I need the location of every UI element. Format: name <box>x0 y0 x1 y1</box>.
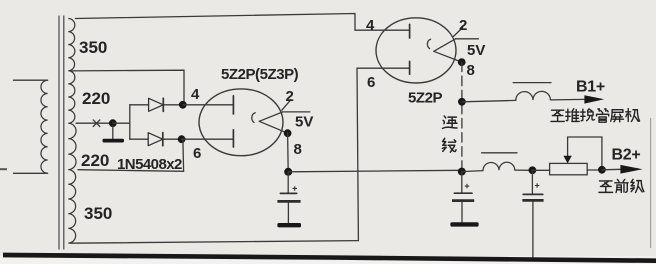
wire: L2 to node E <box>515 169 533 171</box>
wire: C3 to bottom edge <box>532 202 534 260</box>
wire: diode anode bus <box>129 105 131 139</box>
node F junction dot <box>598 166 606 174</box>
B1+ output arrow <box>584 95 604 103</box>
svg-text:B2+: B2+ <box>612 147 641 164</box>
choke L2 core line <box>482 152 517 154</box>
choke L2 wire in <box>462 171 483 172</box>
tube V2 filament <box>427 39 430 48</box>
bottom scan bar <box>3 253 656 263</box>
left edge wire stub <box>0 168 7 170</box>
transformer T1 secondary winding (350-220-0-220-350) <box>68 19 76 244</box>
svg-text:5Z2P: 5Z2P <box>408 90 442 107</box>
capacitor C2 (electrolytic at node D) <box>461 172 463 194</box>
wire: top rail from secondary top to V2 pin 4 <box>76 14 410 31</box>
tube V1 plate pin 6 lead <box>182 138 234 140</box>
wire: center tap lead <box>76 122 112 124</box>
svg-text:4: 4 <box>366 17 375 34</box>
potentiometer RP wiper arrow <box>567 137 569 156</box>
tube V1 filament <box>252 113 255 123</box>
node C junction dot <box>458 98 466 106</box>
tube V1 pin 8 junction dot <box>284 129 292 137</box>
node 6 junction dot <box>178 135 186 143</box>
node 4 junction dot <box>179 101 187 109</box>
svg-text:8: 8 <box>467 62 475 79</box>
svg-text:220: 220 <box>81 151 109 170</box>
svg-text:6: 6 <box>193 145 201 162</box>
svg-text:350: 350 <box>79 38 107 57</box>
tube V2 plate pin 6 bar <box>409 61 411 74</box>
wire: wiper tied to output <box>568 137 602 167</box>
diode D1 (1N5408) <box>130 104 149 106</box>
wire: V2 pin 6 down to bottom rail <box>357 68 409 240</box>
right edge scan line <box>650 118 652 248</box>
wire: node F to B2+ arrow <box>602 168 621 171</box>
node D junction dot <box>458 168 466 176</box>
capacitor C1 (electrolytic) <box>287 172 289 194</box>
svg-text:6: 6 <box>367 74 375 91</box>
svg-text:4: 4 <box>191 86 200 103</box>
wire: upper 220 tap to node 4 <box>70 70 184 105</box>
svg-text:2: 2 <box>459 17 467 34</box>
wire: center tap to diode anode bus <box>113 122 130 124</box>
tube V2 pin 8 junction dot <box>458 58 466 66</box>
transformer T1 core <box>59 16 64 250</box>
label 连 <box>443 116 457 128</box>
tube V1 plate pin 4 lead <box>183 104 234 106</box>
ground (C2) <box>450 222 478 226</box>
tube V2 5V filament wire <box>456 38 479 40</box>
transformer T1 primary top lead wire <box>14 79 48 81</box>
ground (center tap) <box>112 126 114 139</box>
svg-text:8: 8 <box>294 141 302 158</box>
tube V2 pin 2 lead <box>453 28 462 37</box>
dashed connecting wire (lian xian) <box>461 62 463 172</box>
phase mark x on center tap <box>93 120 100 127</box>
choke L2 <box>483 162 515 170</box>
wire: RP to node F <box>587 169 602 171</box>
wire: node 6 down and left to lower 220 tap <box>78 139 184 171</box>
wire: bottom rail to secondary bottom <box>70 241 358 244</box>
ground (C1) <box>277 223 301 227</box>
capacitor C3 (electrolytic at node E) <box>531 170 533 194</box>
svg-text:220: 220 <box>82 89 110 108</box>
junction dot center tap <box>109 119 117 127</box>
B2+ output arrow <box>620 165 642 174</box>
potentiometer RP body <box>550 163 588 174</box>
svg-text:5V: 5V <box>295 114 313 131</box>
label 至推挽管屏极 (to push-pull tube plates) <box>551 110 564 121</box>
svg-text:5V: 5V <box>467 42 485 59</box>
potentiometer RP lead in <box>532 169 549 171</box>
svg-text:2: 2 <box>286 88 294 105</box>
diode D2 (1N5408) <box>130 138 148 140</box>
choke L1 wire in <box>462 100 516 101</box>
svg-text:5Z2P(5Z3P): 5Z2P(5Z3P) <box>221 66 299 83</box>
wire: L1 to B1+ arrow <box>550 98 585 101</box>
tube V2 5Z2P envelope <box>376 18 456 83</box>
wire: V1 pin 8 down to node B <box>287 133 290 172</box>
tube V2 plate pin 4 bar <box>409 24 411 38</box>
wire: node B to node D <box>288 170 462 172</box>
node B junction dot <box>284 168 292 176</box>
choke L1 core line <box>513 82 551 84</box>
label 至前级 (to front stage) <box>599 181 613 192</box>
svg-text:B1+: B1+ <box>576 79 605 96</box>
tube V1 pin 2 lead <box>282 100 291 111</box>
op... tube V1 5Z2P(5Z3P) envelope <box>199 89 283 156</box>
light strip below bottom bar <box>0 256 656 264</box>
transformer T1 primary bottom lead wire <box>14 172 48 174</box>
transformer T1 primary winding <box>41 80 48 173</box>
svg-text:350: 350 <box>84 204 112 223</box>
label 线 <box>442 138 456 152</box>
tube V1 5V filament wire <box>283 111 310 113</box>
choke L1 <box>516 91 551 100</box>
node E junction dot <box>529 166 537 174</box>
